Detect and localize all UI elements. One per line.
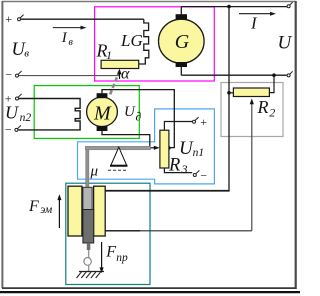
green box motor unit bbox=[34, 86, 139, 139]
svg-text:M: M bbox=[93, 103, 112, 125]
wire G bottom to terminal bbox=[181, 67, 286, 76]
arrow Iv bbox=[53, 26, 87, 48]
magenta box generator unit bbox=[95, 7, 215, 81]
label R1 bbox=[96, 40, 113, 61]
label R3 bbox=[168, 155, 188, 176]
plunger stub bbox=[87, 243, 91, 250]
label Uv bbox=[12, 40, 30, 60]
node junction R3 tap bbox=[167, 146, 171, 150]
wire R2 wiper to solenoid bottom bbox=[105, 230, 252, 232]
svg-text:−: − bbox=[5, 68, 13, 82]
terminal U bottom bbox=[287, 71, 293, 77]
svg-text:2: 2 bbox=[269, 105, 275, 119]
lever rod down bbox=[86, 150, 89, 207]
svg-text:I: I bbox=[61, 30, 68, 46]
resistor R3 bbox=[160, 130, 169, 168]
wire R3 top to terminal plus bbox=[164, 122, 192, 131]
svg-text:U: U bbox=[124, 104, 136, 120]
wire M bottom to R3 wiper bbox=[102, 131, 150, 148]
wire R3 bottom to terminal minus bbox=[164, 168, 192, 173]
node junction top bbox=[227, 5, 231, 9]
node junction R2 left bbox=[227, 91, 231, 95]
resistor R1 bbox=[101, 60, 139, 68]
svg-text:∂: ∂ bbox=[136, 110, 142, 124]
wire junction down to R2 right bbox=[270, 75, 275, 92]
terminal Uv minus bbox=[5, 68, 22, 82]
resistor R2 bbox=[233, 88, 269, 97]
wire M top to R3 tap bbox=[102, 90, 174, 148]
wire to R2 left bbox=[229, 92, 233, 94]
motor M bbox=[87, 93, 118, 131]
wiper arrow alpha on R1 bbox=[117, 65, 130, 82]
svg-text:3: 3 bbox=[181, 162, 188, 176]
wire Uv plus to LG bbox=[21, 18, 144, 20]
wiper arrow on R3 bbox=[150, 146, 160, 150]
terminal Uv plus bbox=[5, 12, 24, 26]
ground support bbox=[77, 272, 105, 279]
svg-text:α: α bbox=[121, 65, 130, 82]
arrow F_em bbox=[57, 194, 61, 228]
gray box R2 unit bbox=[221, 83, 283, 137]
arrow I bbox=[239, 12, 276, 33]
wiper of R2 with wire down bbox=[250, 99, 254, 231]
terminal Up2 minus bbox=[4, 123, 21, 137]
terminal Up1 plus bbox=[193, 115, 208, 129]
svg-text:пр: пр bbox=[116, 252, 128, 264]
main vertical wire bbox=[105, 7, 229, 191]
plunger upper part bbox=[83, 187, 92, 209]
svg-text:U: U bbox=[278, 33, 293, 54]
svg-text:−: − bbox=[4, 123, 12, 137]
solenoid coil right slab bbox=[94, 186, 106, 236]
inductor LG winding bbox=[139, 19, 149, 64]
svg-text:R: R bbox=[168, 155, 180, 175]
label F_pr bbox=[105, 243, 128, 264]
mechanical link motor to wiper (gray dashed) bbox=[109, 71, 119, 97]
wire G top to terminal bbox=[181, 7, 287, 15]
svg-text:п1: п1 bbox=[193, 147, 205, 159]
svg-text:U: U bbox=[5, 103, 19, 123]
svg-text:F: F bbox=[28, 198, 39, 215]
terminal Up2 plus bbox=[4, 92, 22, 106]
svg-text:1: 1 bbox=[106, 48, 112, 62]
svg-text:в: в bbox=[69, 37, 74, 48]
terminal Up1 minus bbox=[193, 169, 207, 183]
svg-text:эм: эм bbox=[40, 204, 53, 216]
node junction right bbox=[272, 73, 276, 77]
spring bbox=[83, 250, 92, 271]
label F_em bbox=[28, 198, 53, 216]
lever bar bbox=[85, 146, 150, 150]
teal box electromagnet unit bbox=[66, 183, 150, 284]
svg-text:μ: μ bbox=[90, 164, 99, 180]
svg-text:+: + bbox=[200, 115, 208, 129]
fulcrum triangle bbox=[108, 147, 128, 170]
svg-text:п2: п2 bbox=[20, 112, 32, 124]
wire Uv minus bbox=[19, 75, 120, 77]
winding Up2 bbox=[18, 99, 80, 130]
svg-text:LG: LG bbox=[120, 31, 143, 50]
svg-text:F: F bbox=[105, 243, 116, 260]
svg-text:R: R bbox=[257, 97, 269, 117]
arrow F_pr bbox=[100, 242, 104, 273]
wire solenoid coil top bbox=[105, 190, 229, 192]
label R2 bbox=[257, 97, 276, 120]
svg-text:в: в bbox=[24, 48, 29, 60]
label Ud bbox=[124, 104, 142, 124]
svg-text:G: G bbox=[175, 31, 190, 53]
wire solenoid coil bottom bbox=[105, 230, 140, 232]
label Up1 bbox=[179, 138, 204, 159]
svg-text:−: − bbox=[200, 169, 208, 183]
solenoid coil left slab bbox=[68, 186, 82, 236]
terminal U top bbox=[287, 2, 293, 8]
plunger lower part bbox=[83, 210, 94, 244]
generator G bbox=[159, 14, 205, 67]
svg-text:+: + bbox=[5, 12, 13, 26]
svg-text:I: I bbox=[250, 14, 258, 33]
label Up2 bbox=[5, 103, 31, 124]
light blue box measuring unit bbox=[78, 109, 215, 184]
